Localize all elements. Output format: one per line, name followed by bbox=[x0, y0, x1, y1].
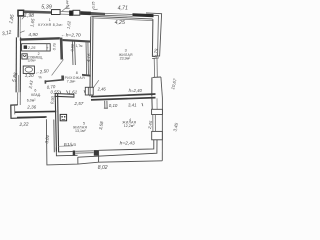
room6 bottom wall band (double dark) bbox=[15, 110, 57, 113]
svg-text:4,71: 4,71 bbox=[118, 5, 128, 11]
room5 left wall (x 54-58) bbox=[55, 93, 56, 151]
window post right bbox=[94, 150, 99, 156]
svg-text:0,70: 0,70 bbox=[52, 43, 57, 50]
svg-text:4,25: 4,25 bbox=[115, 20, 125, 26]
svg-text:3: 3 bbox=[125, 48, 127, 52]
svg-text:0,90: 0,90 bbox=[49, 95, 55, 104]
appliance icon room 5 bbox=[60, 114, 66, 120]
svg-text:8: 8 bbox=[76, 71, 78, 75]
svg-text:КЛАД.: КЛАД. bbox=[31, 93, 41, 97]
big room inner top wall double line bbox=[92, 16, 153, 19]
svg-text:2,36: 2,36 bbox=[26, 104, 36, 109]
svg-text:2,25: 2,25 bbox=[27, 45, 36, 50]
svg-text:23,9м²: 23,9м² bbox=[120, 56, 131, 60]
wall line left of room5 bbox=[53, 120, 56, 153]
right balcony outer bottom bbox=[78, 161, 162, 164]
bottom wall south face left section bbox=[58, 151, 73, 153]
svg-text:0,10: 0,10 bbox=[109, 103, 118, 108]
svg-text:0,44: 0,44 bbox=[65, 0, 69, 7]
svg-text:0,35: 0,35 bbox=[92, 2, 96, 9]
svg-text:3,0м²: 3,0м² bbox=[28, 59, 37, 63]
tick below 0,44 bbox=[66, 7, 70, 9]
bathroom right wall (x~60-62) upper bbox=[60, 38, 63, 60]
window post left bbox=[73, 151, 76, 156]
left wall thin segment below bbox=[17, 92, 19, 105]
right wall window bbox=[153, 59, 155, 78]
window right lower bbox=[152, 115, 154, 132]
bottom-left outer corner jut bbox=[11, 105, 45, 118]
washbasin bbox=[23, 66, 34, 73]
wall segment between boxes bbox=[60, 11, 69, 13]
black pillar bbox=[69, 11, 73, 16]
room5 top wall (double) bbox=[54, 93, 74, 96]
interior wall kitchen bottom (y~38-41) bbox=[20, 37, 60, 41]
sill box 1 bbox=[152, 109, 163, 114]
left exterior wall box bbox=[17, 16, 19, 37]
svg-text:8,02: 8,02 bbox=[98, 165, 108, 171]
door jamb lower part of wall I bbox=[61, 76, 64, 80]
top exterior wall band (kitchen, hatched) bbox=[24, 10, 52, 13]
tick below 0,35 bbox=[93, 8, 97, 10]
svg-text:13,1м²: 13,1м² bbox=[75, 129, 86, 133]
svg-text:Б1/из: Б1/из bbox=[64, 142, 77, 148]
svg-text:КУХНЯ 8,2м²: КУХНЯ 8,2м² bbox=[38, 23, 63, 27]
room3 bottom wall band (two lines) bbox=[91, 94, 156, 97]
window (double thin line) top right bbox=[105, 13, 133, 14]
svg-text:1,62: 1,62 bbox=[66, 20, 72, 29]
balcony rail mid line bbox=[56, 148, 77, 156]
corridor right furring wall bbox=[85, 41, 88, 76]
right wall upper box bbox=[151, 19, 154, 57]
svg-text:7,3м²: 7,3м² bbox=[67, 80, 76, 84]
right wall lower verticals bbox=[151, 77, 153, 96]
svg-text:3,41: 3,41 bbox=[128, 103, 137, 108]
svg-text:2,57: 2,57 bbox=[73, 101, 83, 106]
svg-text:h=2,40: h=2,40 bbox=[129, 88, 143, 93]
bottom wall window (double thin) bbox=[75, 150, 93, 153]
bottom wall south face right section bbox=[99, 140, 154, 151]
svg-text:1,98: 1,98 bbox=[24, 13, 34, 19]
entrance door leaf / leader bbox=[62, 5, 69, 11]
bathroom door leaf bbox=[52, 60, 64, 76]
right protrusion outer edge bbox=[161, 98, 163, 161]
svg-text:2,22: 2,22 bbox=[18, 121, 29, 127]
big room left wall (double) bbox=[89, 17, 92, 97]
svg-text:←h=2,70: ←h=2,70 bbox=[61, 32, 81, 38]
bottom wall north face (thin) bbox=[58, 145, 72, 147]
svg-text:0,55: 0,55 bbox=[51, 90, 60, 95]
window box 1 in top wall bbox=[52, 10, 61, 15]
darker segment bbox=[80, 11, 90, 15]
jamb stub left of bathroom bottom wall bbox=[45, 80, 47, 83]
svg-text:5,39: 5,39 bbox=[41, 4, 52, 10]
room3 door leaf bbox=[93, 80, 99, 88]
svg-text:4,90: 4,90 bbox=[28, 32, 38, 38]
wall stub below band bbox=[104, 101, 106, 109]
bathtub bbox=[22, 44, 51, 51]
left balcony outer outline bbox=[46, 119, 78, 165]
vent shaft square top-left corner bbox=[18, 10, 24, 16]
svg-text:4,16: 4,16 bbox=[86, 53, 92, 63]
svg-text:6,0м²: 6,0м² bbox=[27, 98, 36, 102]
top wall right thick black bbox=[133, 13, 154, 17]
bathroom bottom wall (sloped) bbox=[45, 79, 65, 82]
top wall band continues to window bbox=[80, 11, 105, 15]
shaft 4-pane box bbox=[85, 87, 93, 95]
svg-text:12,2м²: 12,2м² bbox=[124, 124, 135, 128]
balcony box divider bbox=[98, 150, 100, 162]
svg-text:1,7м: 1,7м bbox=[76, 44, 84, 48]
svg-text:2,46: 2,46 bbox=[97, 87, 107, 92]
closet wall (x 72-75, y 40-65) bbox=[71, 40, 74, 65]
corridor tee wall (y~40-42) bbox=[63, 39, 91, 43]
svg-text:1,20: 1,20 bbox=[25, 73, 34, 78]
svg-text:1,61: 1,61 bbox=[68, 89, 77, 94]
kitchen door swing bbox=[22, 16, 25, 19]
left wall lower (double) bbox=[15, 37, 17, 92]
white box 2 (entrance) bbox=[73, 10, 80, 15]
toilet bbox=[22, 54, 27, 59]
dim tick marks bbox=[60, 91, 61, 94]
top-right corner outer line bbox=[146, 13, 162, 57]
svg-text:1: 1 bbox=[49, 18, 51, 22]
right wall lower box top sill bbox=[153, 76, 161, 78]
sill box 2 bbox=[152, 131, 163, 139]
inner line right wall below band bbox=[151, 98, 153, 109]
corridor lower wall segment (y~74-76) bbox=[82, 74, 91, 77]
leader tick above 4,90 bbox=[20, 31, 24, 33]
svg-text:h=2,43: h=2,43 bbox=[120, 140, 135, 146]
